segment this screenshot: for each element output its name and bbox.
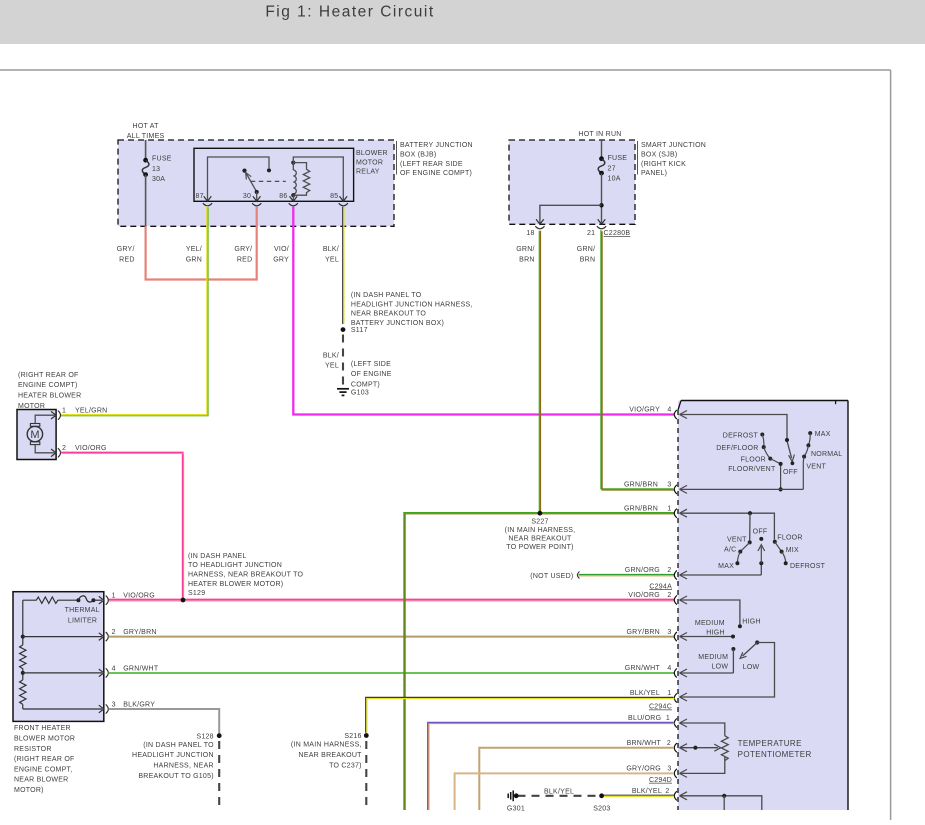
svg-text:FUSE: FUSE bbox=[152, 155, 172, 162]
blower speed switch wiper to pin 1 bbox=[680, 640, 775, 701]
motor symbol M bbox=[27, 424, 42, 445]
blower speed switch HIGH contact from pin 2 bbox=[680, 596, 742, 628]
relay pin 86 stub bbox=[292, 195, 294, 201]
svg-text:YEL: YEL bbox=[325, 363, 339, 370]
svg-text:C294A: C294A bbox=[649, 583, 672, 590]
svg-text:30: 30 bbox=[243, 193, 251, 200]
svg-text:1: 1 bbox=[112, 593, 116, 600]
wire BLK/YEL control head pin 1 to S216 bbox=[366, 697, 675, 733]
label GRY/RED (pin 30) bbox=[234, 246, 252, 263]
svg-text:3: 3 bbox=[667, 629, 671, 636]
svg-text:GRN: GRN bbox=[186, 257, 202, 264]
svg-text:BATTERY JUNCTION: BATTERY JUNCTION bbox=[400, 142, 473, 149]
svg-text:YEL: YEL bbox=[325, 257, 339, 264]
svg-text:DEFROST: DEFROST bbox=[723, 432, 759, 439]
svg-text:27: 27 bbox=[608, 166, 616, 173]
svg-text:BOX (SJB): BOX (SJB) bbox=[641, 152, 677, 159]
svg-text:RED: RED bbox=[237, 257, 253, 264]
wire GRY/BRN resistor pin 2 to control head bbox=[109, 636, 675, 638]
resistor pin cups bbox=[106, 596, 109, 714]
svg-text:MIX: MIX bbox=[786, 547, 799, 554]
svg-text:2: 2 bbox=[667, 592, 671, 599]
relay pin 87 arrow and cup bbox=[203, 196, 212, 206]
label front heater blower motor resistor bbox=[14, 725, 75, 794]
label GRN/BRN (pin 18) bbox=[516, 246, 535, 263]
svg-text:BRN: BRN bbox=[519, 257, 535, 264]
svg-text:S216: S216 bbox=[344, 733, 361, 740]
svg-text:NEAR BREAKOUT: NEAR BREAKOUT bbox=[299, 752, 363, 759]
label heater blower motor location bbox=[18, 372, 81, 410]
svg-text:GRY: GRY bbox=[273, 257, 289, 264]
svg-text:3: 3 bbox=[667, 482, 671, 489]
svg-text:M: M bbox=[30, 429, 39, 441]
svg-text:1: 1 bbox=[62, 408, 66, 415]
resistor pin 3 internal bbox=[23, 705, 104, 713]
AC switch left chain VENT A/C MAX bbox=[735, 540, 751, 565]
svg-text:(IN DASH PANEL: (IN DASH PANEL bbox=[188, 553, 247, 560]
svg-text:BLU/ORG: BLU/ORG bbox=[628, 715, 661, 722]
svg-text:4: 4 bbox=[667, 665, 671, 672]
motor pin 2 internal wire and arrow bbox=[35, 445, 60, 458]
svg-text:GRN/BRN: GRN/BRN bbox=[624, 482, 658, 489]
svg-text:YEL/GRN: YEL/GRN bbox=[75, 408, 107, 415]
svg-text:COMPT): COMPT) bbox=[351, 382, 380, 389]
svg-text:MOTOR): MOTOR) bbox=[14, 787, 44, 794]
svg-text:GRN/BRN: GRN/BRN bbox=[624, 505, 658, 512]
svg-text:GRN/ORG: GRN/ORG bbox=[625, 567, 660, 574]
svg-text:(LEFT REAR SIDE: (LEFT REAR SIDE bbox=[400, 161, 463, 168]
blower speed switch MEDIUM HIGH contact from pin 3 bbox=[680, 633, 736, 641]
svg-text:18: 18 bbox=[526, 230, 534, 237]
svg-text:86: 86 bbox=[279, 193, 287, 200]
svg-text:VENT: VENT bbox=[806, 463, 826, 470]
resistor pin 2 internal bbox=[21, 633, 104, 641]
relay actuation dashed link bbox=[251, 180, 286, 182]
wire VIO/ORG motor pin 2 to S129 bbox=[61, 453, 184, 601]
label HOT AT ALL TIMES bbox=[127, 123, 165, 140]
splice S129 bbox=[181, 598, 186, 603]
svg-text:PANEL): PANEL) bbox=[641, 170, 667, 177]
title band bbox=[0, 0, 925, 44]
relay contact from pin 87 bbox=[208, 157, 272, 201]
svg-text:GRY/BRN: GRY/BRN bbox=[626, 629, 660, 636]
label SMART JUNCTION BOX bbox=[641, 142, 706, 177]
relay coil bbox=[291, 161, 296, 198]
label TEMPERATURE POTENTIOMETER bbox=[738, 739, 812, 759]
svg-text:GRN/WHT: GRN/WHT bbox=[123, 665, 159, 672]
resistor pin 4 internal bbox=[21, 669, 104, 677]
wire BLK/GRY resistor pin 3 to S128 bbox=[109, 709, 220, 734]
svg-text:MEDIUM: MEDIUM bbox=[695, 620, 725, 627]
svg-text:NEAR BREAKOUT TO: NEAR BREAKOUT TO bbox=[351, 311, 426, 318]
ground G103 bbox=[337, 389, 369, 397]
svg-text:2: 2 bbox=[665, 788, 669, 795]
dashed continuation below S216 bbox=[365, 741, 367, 808]
svg-text:HEATER BLOWER: HEATER BLOWER bbox=[18, 393, 81, 400]
svg-text:OFF: OFF bbox=[783, 469, 798, 476]
svg-text:THERMAL: THERMAL bbox=[65, 607, 100, 614]
svg-text:HEATER BLOWER MOTOR): HEATER BLOWER MOTOR) bbox=[188, 581, 283, 588]
svg-text:HEADLIGHT JUNCTION: HEADLIGHT JUNCTION bbox=[132, 752, 214, 759]
motor pin labels bbox=[62, 408, 107, 453]
svg-text:LOW: LOW bbox=[711, 664, 728, 671]
svg-text:OF ENGINE COMPT): OF ENGINE COMPT) bbox=[400, 170, 472, 177]
svg-text:FLOOR/VENT: FLOOR/VENT bbox=[728, 466, 776, 473]
svg-text:OFF: OFF bbox=[753, 529, 768, 536]
svg-text:BREAKOUT TO G105): BREAKOUT TO G105) bbox=[138, 773, 213, 780]
blower speed labels bbox=[695, 619, 761, 671]
svg-text:3: 3 bbox=[667, 766, 671, 773]
mode switch right contact chain MAX to VENT bbox=[802, 431, 812, 489]
svg-text:A/C: A/C bbox=[724, 547, 736, 554]
label VIO/GRY bbox=[273, 246, 289, 263]
BJB callout bracket bbox=[396, 141, 398, 175]
wire GRN/BRN S227 to control head pin 1 and down bbox=[404, 513, 674, 810]
svg-text:VIO/ORG: VIO/ORG bbox=[123, 593, 155, 600]
svg-text:BLOWER MOTOR: BLOWER MOTOR bbox=[14, 736, 75, 743]
svg-text:YEL/: YEL/ bbox=[186, 246, 202, 253]
svg-text:VIO/GRY: VIO/GRY bbox=[629, 407, 660, 414]
mode switch return to pin 3 bbox=[680, 485, 804, 493]
svg-text:VIO/: VIO/ bbox=[274, 246, 289, 253]
svg-text:BLK/: BLK/ bbox=[323, 353, 339, 360]
svg-text:OF ENGINE: OF ENGINE bbox=[351, 371, 392, 378]
svg-text:HEADLIGHT JUNCTION HARNESS,: HEADLIGHT JUNCTION HARNESS, bbox=[351, 301, 473, 308]
svg-text:BOX (BJB): BOX (BJB) bbox=[400, 152, 436, 159]
svg-text:FLOOR: FLOOR bbox=[741, 456, 766, 463]
mode switch position labels bbox=[716, 431, 842, 476]
label BLK/YEL (ground leg) bbox=[323, 353, 339, 370]
svg-text:SMART JUNCTION: SMART JUNCTION bbox=[641, 142, 706, 149]
label BLK/YEL bbox=[323, 246, 339, 263]
svg-text:HOT AT: HOT AT bbox=[133, 123, 160, 130]
svg-text:VENT: VENT bbox=[727, 536, 747, 543]
AC switch return line pin 2 bbox=[680, 571, 762, 579]
wire BRN/WHT control head pin 2 down bbox=[479, 748, 674, 810]
svg-text:13: 13 bbox=[152, 166, 160, 173]
svg-text:1: 1 bbox=[667, 505, 671, 512]
motor pin 1 internal wire and arrow bbox=[35, 411, 60, 424]
svg-text:ENGINE COMPT,: ENGINE COMPT, bbox=[14, 766, 72, 773]
resistor pin labels bbox=[112, 593, 159, 709]
relay pin 30 arrow and cup bbox=[252, 196, 261, 206]
label BATTERY JUNCTION BOX bbox=[400, 142, 473, 177]
svg-text:RED: RED bbox=[119, 257, 135, 264]
svg-text:NEAR BLOWER: NEAR BLOWER bbox=[14, 777, 68, 784]
svg-text:MEDIUM: MEDIUM bbox=[698, 654, 728, 661]
svg-text:MAX: MAX bbox=[718, 563, 734, 570]
svg-text:VIO/ORG: VIO/ORG bbox=[628, 592, 660, 599]
svg-text:BRN: BRN bbox=[580, 257, 596, 264]
svg-text:TO C237): TO C237) bbox=[329, 762, 362, 769]
splice S227 bbox=[538, 511, 543, 516]
svg-text:BRN/WHT: BRN/WHT bbox=[627, 740, 662, 747]
blower motor relay box bbox=[194, 148, 354, 201]
svg-text:GRY/ORG: GRY/ORG bbox=[626, 766, 661, 773]
wire BLU/ORG control head pin 1 down bbox=[428, 722, 675, 810]
wire VIO/ORG resistor pin 1 to control head bbox=[109, 600, 675, 602]
label BLOWER MOTOR RELAY bbox=[356, 150, 388, 176]
svg-text:MOTOR: MOTOR bbox=[356, 159, 383, 166]
mode switch wiper arm (OFF) bbox=[787, 442, 794, 465]
svg-text:(RIGHT REAR OF: (RIGHT REAR OF bbox=[14, 756, 75, 763]
svg-text:BLK/GRY: BLK/GRY bbox=[123, 701, 155, 708]
ground return from pin 2 BLK/YEL bbox=[680, 792, 762, 810]
label GRY/RED (fuse) bbox=[117, 246, 135, 263]
AC switch feed from pin 1 bbox=[680, 509, 775, 540]
mode switch left contact chain DEFROST to FLOOR/VENT bbox=[760, 433, 782, 492]
svg-text:2: 2 bbox=[62, 445, 66, 452]
wire BLK/YEL relay pin 85 to S117 bbox=[343, 207, 344, 324]
svg-text:RESISTOR: RESISTOR bbox=[14, 746, 52, 753]
svg-text:HARNESS, NEAR BREAKOUT TO: HARNESS, NEAR BREAKOUT TO bbox=[188, 572, 303, 579]
svg-text:FLOOR: FLOOR bbox=[777, 535, 802, 542]
fuse F13 30A bbox=[142, 140, 171, 226]
splice S117 bbox=[341, 327, 368, 334]
svg-text:(IN MAIN HARNESS,: (IN MAIN HARNESS, bbox=[505, 527, 576, 534]
note S129 harness location bbox=[188, 553, 303, 597]
svg-text:MAX: MAX bbox=[815, 431, 831, 438]
svg-text:ALL TIMES: ALL TIMES bbox=[127, 133, 165, 140]
temperature potentiometer bbox=[680, 719, 729, 777]
ground G301 bbox=[507, 790, 525, 812]
svg-text:BLK/YEL: BLK/YEL bbox=[544, 789, 574, 796]
svg-text:HARNESS, NEAR: HARNESS, NEAR bbox=[153, 763, 213, 770]
svg-text:Fig 1: Heater Circuit: Fig 1: Heater Circuit bbox=[265, 4, 434, 21]
svg-text:NEAR BREAKOUT: NEAR BREAKOUT bbox=[508, 535, 572, 542]
note S128 harness location bbox=[132, 742, 214, 780]
AC switch OFF contact and wiper to pin 2 bbox=[758, 537, 765, 575]
relay pin number labels bbox=[196, 193, 339, 200]
svg-text:HOT IN RUN: HOT IN RUN bbox=[578, 131, 621, 138]
svg-text:2: 2 bbox=[667, 740, 671, 747]
SJB pin 21 arrow and cup bbox=[597, 219, 606, 228]
note S227 harness location bbox=[505, 519, 576, 551]
svg-text:FRONT HEATER: FRONT HEATER bbox=[14, 725, 71, 732]
svg-text:GRY/BRN: GRY/BRN bbox=[123, 629, 157, 636]
splice S216 bbox=[344, 733, 368, 740]
svg-text:2: 2 bbox=[112, 629, 116, 636]
svg-text:4: 4 bbox=[667, 407, 671, 414]
svg-text:10A: 10A bbox=[608, 176, 621, 183]
svg-text:RELAY: RELAY bbox=[356, 169, 380, 176]
wire GRY/RED fuse13 to relay pin 30 bbox=[146, 207, 257, 280]
svg-text:GRN/: GRN/ bbox=[516, 246, 535, 253]
svg-text:BLK/YEL: BLK/YEL bbox=[632, 788, 662, 795]
wire GRY/ORG control head pin 3 down bbox=[455, 773, 674, 810]
svg-text:BLOWER: BLOWER bbox=[356, 150, 388, 157]
svg-text:BLK/: BLK/ bbox=[323, 246, 339, 253]
SJB pin 18 arrow and cup bbox=[535, 219, 544, 228]
SJB internal wire and branch node bbox=[540, 173, 604, 224]
relay coil parallel resistor bbox=[293, 163, 309, 196]
svg-text:TO HEADLIGHT JUNCTION: TO HEADLIGHT JUNCTION bbox=[188, 562, 282, 569]
relay NC contact dot bbox=[242, 169, 246, 173]
note S216 harness location bbox=[291, 742, 362, 770]
SJB callout bracket bbox=[637, 141, 639, 175]
battery junction box (BJB) bbox=[118, 140, 394, 226]
svg-text:NORMAL: NORMAL bbox=[811, 451, 842, 458]
heater blower motor box bbox=[17, 410, 56, 460]
label GRN/BRN (pin 21) bbox=[577, 246, 596, 263]
svg-text:1: 1 bbox=[666, 715, 670, 722]
svg-text:C294D: C294D bbox=[649, 777, 672, 784]
wire YEL/GRN relay pin 87 to blower motor pin 1 bbox=[60, 206, 208, 416]
svg-text:S128: S128 bbox=[196, 733, 213, 740]
svg-text:(IN MAIN HARNESS,: (IN MAIN HARNESS, bbox=[291, 742, 362, 749]
svg-text:DEFROST: DEFROST bbox=[790, 563, 826, 570]
note S117 harness location bbox=[351, 292, 473, 327]
svg-text:GRN/: GRN/ bbox=[577, 246, 596, 253]
pin numbers 18 21 and connector C2280B bbox=[526, 230, 630, 237]
svg-text:S117: S117 bbox=[351, 327, 368, 334]
svg-text:(LEFT SIDE: (LEFT SIDE bbox=[351, 361, 391, 368]
svg-text:BATTERY JUNCTION BOX): BATTERY JUNCTION BOX) bbox=[351, 320, 444, 327]
label YEL/GRN bbox=[186, 246, 202, 263]
svg-text:C294C: C294C bbox=[649, 704, 672, 711]
svg-text:C2280B: C2280B bbox=[604, 230, 631, 237]
svg-text:30A: 30A bbox=[152, 176, 165, 183]
svg-text:TEMPERATURE: TEMPERATURE bbox=[738, 739, 802, 748]
wire BLK/YEL S203 to control head pin 2 bbox=[602, 795, 674, 796]
svg-text:LOW: LOW bbox=[743, 664, 760, 671]
svg-text:3: 3 bbox=[112, 701, 116, 708]
fuse F27 10A bbox=[598, 140, 627, 183]
svg-text:POTENTIOMETER: POTENTIOMETER bbox=[738, 750, 812, 759]
svg-text:(RIGHT KICK: (RIGHT KICK bbox=[641, 161, 686, 168]
svg-text:21: 21 bbox=[587, 230, 595, 237]
thermal limiter branch (resistor + limiter) bbox=[23, 596, 104, 604]
svg-text:G103: G103 bbox=[351, 390, 369, 397]
dashed wire S117 to G103 bbox=[342, 335, 344, 388]
svg-text:HIGH: HIGH bbox=[706, 629, 725, 636]
svg-text:87: 87 bbox=[196, 193, 204, 200]
splice S203 bbox=[593, 793, 610, 812]
smart junction box (SJB) bbox=[509, 140, 635, 224]
svg-text:GRN/WHT: GRN/WHT bbox=[625, 665, 661, 672]
svg-text:S129: S129 bbox=[188, 590, 205, 597]
mode switch feed from pin 4 bbox=[680, 411, 790, 443]
svg-text:S227: S227 bbox=[531, 519, 548, 526]
svg-text:LIMITER: LIMITER bbox=[68, 618, 97, 625]
dashed wire G301 to S203 bbox=[518, 789, 600, 796]
dashed continuation below S128 bbox=[218, 741, 220, 808]
relay pin 86 arrow and cup bbox=[289, 196, 298, 206]
relay wire coil-top to pin 85 bbox=[293, 157, 343, 201]
control head pin cups bbox=[674, 410, 677, 801]
resistor ladder left branch bbox=[20, 600, 26, 709]
svg-text:VIO/ORG: VIO/ORG bbox=[75, 445, 107, 452]
svg-text:(NOT USED): (NOT USED) bbox=[530, 573, 573, 580]
svg-text:ENGINE COMPT): ENGINE COMPT) bbox=[18, 382, 78, 389]
svg-text:DEF/FLOOR: DEF/FLOOR bbox=[716, 445, 758, 452]
blower speed switch MEDIUM LOW contact to pin 4 bbox=[680, 647, 736, 677]
AC switch right chain FLOOR MIX DEFROST bbox=[773, 540, 788, 565]
svg-text:2: 2 bbox=[667, 567, 671, 574]
wire GRN/BRN SJB pin 21 to control head pin 3 bbox=[601, 230, 675, 490]
wire GRN/BRN SJB pin 18 to S227 bbox=[539, 231, 540, 514]
control head pin labels bbox=[624, 407, 672, 795]
label THERMAL LIMITER bbox=[65, 607, 100, 624]
connector labels C294A C294C C294D bbox=[649, 583, 672, 784]
wire GRN/WHT resistor pin 4 to control head bbox=[109, 672, 675, 674]
wire GRN/ORG not used stub bbox=[530, 572, 674, 580]
wire VIO/GRY relay pin 86 to control head pin 4 bbox=[293, 207, 674, 415]
relay movable arm from pin 30 bbox=[246, 172, 259, 201]
splice S128 bbox=[196, 733, 221, 740]
svg-text:GRY/: GRY/ bbox=[117, 246, 135, 253]
svg-text:4: 4 bbox=[112, 665, 116, 672]
svg-text:G301: G301 bbox=[507, 806, 525, 813]
potentiometer wiper from pin 2 bbox=[680, 744, 721, 752]
relay pin 85 arrow and cup bbox=[339, 196, 348, 206]
svg-text:FUSE: FUSE bbox=[608, 155, 628, 162]
svg-text:GRY/: GRY/ bbox=[234, 246, 252, 253]
svg-text:(IN DASH PANEL TO: (IN DASH PANEL TO bbox=[143, 742, 214, 749]
svg-text:1: 1 bbox=[667, 690, 671, 697]
heater control head box bbox=[678, 401, 848, 811]
svg-text:(IN DASH PANEL TO: (IN DASH PANEL TO bbox=[351, 292, 422, 299]
AC switch position labels bbox=[718, 529, 825, 571]
svg-text:S203: S203 bbox=[593, 806, 610, 813]
svg-text:(RIGHT REAR OF: (RIGHT REAR OF bbox=[18, 372, 79, 379]
svg-text:HIGH: HIGH bbox=[742, 619, 761, 626]
note G103 location bbox=[351, 361, 392, 389]
svg-text:85: 85 bbox=[330, 193, 338, 200]
label HOT IN RUN bbox=[578, 131, 621, 138]
svg-text:TO POWER POINT): TO POWER POINT) bbox=[506, 544, 573, 551]
front heater blower motor resistor box bbox=[13, 592, 104, 722]
svg-text:BLK/YEL: BLK/YEL bbox=[630, 690, 660, 697]
